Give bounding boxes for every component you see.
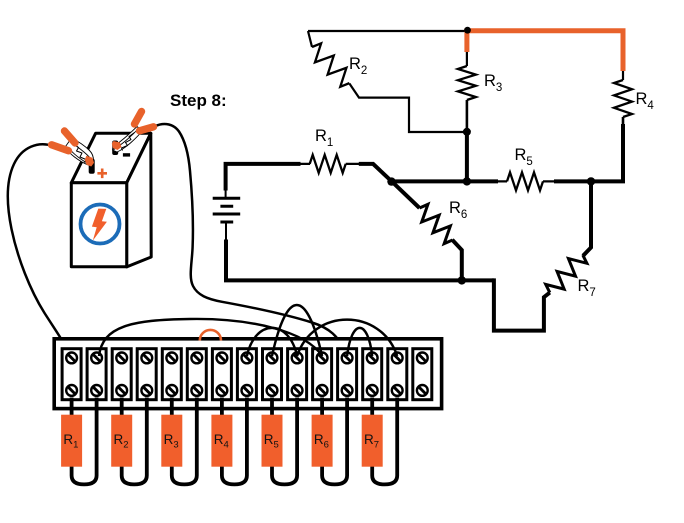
alligator clip right jaw [113, 127, 143, 153]
terminal cell 10 [288, 349, 307, 400]
svg-text:R7: R7 [578, 277, 596, 299]
battery box top face [71, 133, 151, 183]
wire R5 to R4 bottom corner [554, 124, 623, 181]
alligator clip left handles [52, 131, 76, 151]
battery logo lightning bolt [92, 209, 107, 241]
node R6/bottom junction [458, 276, 466, 284]
wire R7 top lead [583, 181, 591, 255]
battery box right face [127, 133, 152, 266]
terminal cell 11 [313, 349, 332, 400]
svg-text:R5: R5 [515, 146, 533, 168]
svg-text:R3: R3 [484, 72, 502, 94]
node R5/R7 junction [587, 177, 595, 185]
wire bottom staircase [494, 278, 550, 330]
terminal strip body [54, 339, 441, 409]
svg-text:R4: R4 [636, 90, 655, 112]
terminal cell 8 [237, 349, 256, 400]
node R1/R6 junction [387, 177, 395, 185]
svg-text:R1: R1 [315, 127, 333, 149]
wire R3 bottom lead [466, 100, 469, 133]
terminal cell 12 [338, 349, 357, 400]
alligator clip right handles [135, 112, 154, 131]
wire R3 bottom vertical [465, 132, 469, 182]
terminal cell 9 [263, 349, 282, 400]
terminal cell 15 [413, 349, 432, 400]
resistor R6 [414, 202, 459, 246]
resistor R4 (pictorial) [211, 398, 247, 485]
terminal cell 4 [137, 349, 156, 400]
jumper wire terminal 2 to terminal 11 [99, 319, 322, 356]
terminal positive post [89, 159, 95, 174]
wire from right clip to terminal strip slot 12 [155, 124, 346, 355]
node R3/main junction [463, 177, 471, 185]
resistor R7 (pictorial) [362, 398, 398, 485]
wire top horizontal [308, 30, 467, 32]
wire R5 leads [497, 180, 559, 182]
battery B1 plates [225, 188, 227, 241]
jumper wire terminal 12 to terminal 13 [347, 328, 372, 356]
wire battery bottom [226, 240, 494, 281]
jumper wire terminal 10 to terminal 14 [297, 320, 397, 356]
wire R6 bottom lead [452, 240, 462, 281]
label + [97, 169, 107, 179]
terminal cell 13 [363, 349, 382, 400]
svg-text:Step 8:: Step 8: [170, 91, 227, 110]
wire R1 right lead to node [359, 164, 392, 181]
label - [123, 153, 130, 156]
resistor R5 [507, 172, 543, 190]
terminal cell 14 [388, 349, 407, 400]
wire from left clip to terminal strip slot 1 [8, 144, 71, 355]
resistor R6 (pictorial) [312, 398, 348, 485]
resistor R2 [306, 41, 356, 90]
alligator clip left jaw [66, 138, 94, 166]
wire R1 leads [300, 163, 360, 165]
resistor R1 (pictorial) [61, 398, 97, 485]
wire R3 top lead [466, 50, 468, 66]
battery logo circle [81, 205, 120, 244]
terminal negative post [112, 141, 118, 156]
terminal cell 1 [62, 349, 81, 400]
terminal cell 2 [87, 349, 106, 400]
resistor R4 [614, 80, 632, 117]
resistor R5 (pictorial) [262, 398, 298, 485]
jumper wire highlighted terminal 6 to terminal 7 (orange) [200, 330, 221, 341]
terminal cell 3 [112, 349, 131, 400]
wire R6 top lead [392, 181, 420, 208]
jumper wire terminal 9 to terminal 11 [272, 305, 322, 356]
terminal cell 6 [187, 349, 206, 400]
jumper wire terminal 8 to terminal 10 [247, 328, 297, 356]
wire main horizontal node to R5 [390, 179, 498, 183]
wire R4 bottom lead [622, 117, 625, 126]
svg-text:R6: R6 [449, 199, 467, 221]
terminal cell 5 [162, 349, 181, 400]
resistor R3 [458, 66, 476, 100]
alligator clip right tip [112, 141, 122, 150]
svg-text:R2: R2 [349, 55, 367, 77]
wire R2 top lead [308, 31, 312, 47]
resistor R3 (pictorial) [161, 398, 197, 485]
node R2/R3 junction [463, 128, 471, 136]
resistor R2 (pictorial) [111, 398, 147, 485]
terminal cell 7 [212, 349, 231, 400]
wire R4 top lead [622, 70, 624, 80]
wire battery top to R1 [226, 164, 301, 191]
battery box front face [71, 183, 126, 267]
wire R2 bottom route to R3 node [349, 84, 467, 133]
wire highlighted orange (R3 top node to R4 top) [467, 31, 623, 71]
node top junction [464, 27, 471, 34]
alligator clip left tip [85, 156, 94, 167]
resistor R7 [543, 249, 589, 298]
resistor R1 [310, 155, 346, 173]
